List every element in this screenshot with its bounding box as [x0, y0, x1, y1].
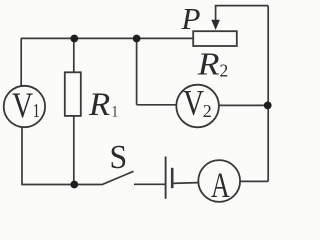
ammeter A [198, 160, 240, 205]
wire V2 branch vertical [136, 39, 138, 105]
svg-text:S: S [110, 139, 128, 176]
svg-text:2: 2 [220, 61, 229, 81]
wire top bus [21, 37, 194, 39]
label R2 [197, 47, 229, 82]
svg-text:2: 2 [203, 101, 212, 121]
junction node on right rail [264, 102, 272, 110]
svg-text:P: P [181, 1, 201, 36]
wire ammeter to corner [240, 180, 268, 182]
battery short plate [171, 168, 174, 188]
wire V2 branch horizontal [137, 104, 177, 106]
wire left rail lower [21, 127, 23, 184]
svg-text:A: A [211, 165, 230, 205]
label R1 [88, 87, 118, 123]
wire bottom bus left [21, 184, 101, 186]
svg-text:R: R [88, 87, 110, 123]
junction node at R1 top [70, 35, 78, 43]
voltmeter V2 [176, 84, 219, 127]
svg-text:V: V [183, 84, 205, 123]
svg-text:V: V [12, 86, 34, 125]
rheostat wiper arrowhead [211, 20, 220, 30]
wire battery to ammeter [172, 182, 198, 185]
wire top-right jog to wiper [216, 6, 269, 21]
switch S lever [102, 171, 134, 185]
rheostat R2 body [193, 31, 237, 46]
wire R1 branch lower [73, 116, 75, 185]
svg-text:1: 1 [112, 103, 118, 121]
wire right rail [267, 6, 269, 182]
resistor R1 body [65, 72, 81, 116]
junction node at V2 branch top [133, 35, 141, 43]
battery long plate [165, 157, 167, 199]
wire left rail upper [20, 38, 22, 86]
wire R1 branch upper [73, 39, 75, 73]
wire switch to battery [134, 183, 166, 185]
svg-text:R: R [197, 47, 220, 82]
junction node at R1 bottom [70, 181, 78, 189]
voltmeter V1 [4, 86, 45, 127]
wire V2 to right rail [219, 104, 268, 106]
svg-text:1: 1 [33, 100, 40, 121]
